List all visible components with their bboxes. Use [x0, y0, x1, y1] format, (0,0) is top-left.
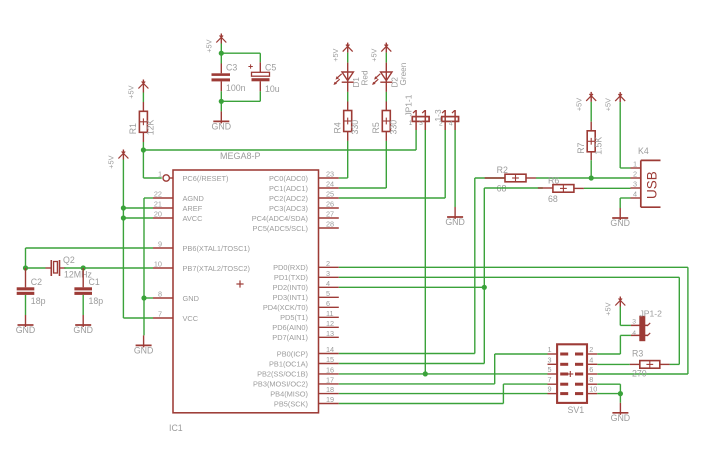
svg-text:PD4(XCK/T0): PD4(XCK/T0)	[263, 303, 308, 312]
svg-text:IC1: IC1	[169, 423, 183, 433]
svg-text:JP1-2: JP1-2	[640, 309, 663, 319]
svg-text:21: 21	[154, 200, 162, 209]
svg-text:PC6(/RESET): PC6(/RESET)	[183, 174, 229, 183]
svg-text:3: 3	[419, 120, 423, 127]
svg-text:12K: 12K	[146, 120, 156, 136]
svg-text:R5: R5	[371, 122, 381, 133]
svg-text:SV1: SV1	[568, 405, 585, 415]
svg-text:4: 4	[326, 279, 330, 288]
svg-text:10u: 10u	[265, 84, 280, 94]
svg-text:PD6(AIN0): PD6(AIN0)	[272, 323, 308, 332]
svg-text:18p: 18p	[89, 296, 104, 306]
svg-text:5: 5	[326, 289, 330, 298]
svg-text:USB: USB	[645, 171, 660, 199]
svg-text:27: 27	[326, 210, 334, 219]
svg-text:2: 2	[326, 259, 330, 268]
svg-text:C5: C5	[265, 62, 276, 72]
svg-text:3: 3	[633, 179, 637, 188]
svg-text:7: 7	[158, 310, 162, 319]
svg-text:4: 4	[633, 189, 637, 198]
svg-text:PC2(ADC2): PC2(ADC2)	[269, 194, 308, 203]
svg-text:R7: R7	[576, 142, 586, 153]
svg-text:PD7(AIN1): PD7(AIN1)	[272, 333, 308, 342]
svg-text:PB6(XTAL1/TOSC1): PB6(XTAL1/TOSC1)	[183, 244, 251, 253]
svg-text:PC4(ADC4/SDA): PC4(ADC4/SDA)	[252, 214, 308, 223]
svg-text:+5V: +5V	[604, 302, 613, 315]
svg-text:3: 3	[547, 355, 551, 364]
svg-text:+5V: +5V	[370, 48, 379, 61]
svg-text:PD0(RXD): PD0(RXD)	[273, 263, 308, 272]
svg-text:7: 7	[547, 375, 551, 384]
svg-text:1: 1	[158, 170, 162, 179]
svg-text:PB2(SS/OC1B): PB2(SS/OC1B)	[257, 370, 308, 379]
svg-text:26: 26	[326, 200, 334, 209]
svg-text:17: 17	[326, 376, 334, 385]
svg-text:AVCC: AVCC	[183, 214, 204, 223]
svg-text:11: 11	[326, 309, 334, 318]
svg-text:9: 9	[547, 385, 551, 394]
svg-text:GND: GND	[134, 345, 154, 355]
svg-text:68: 68	[548, 194, 558, 204]
svg-text:10: 10	[589, 385, 597, 394]
svg-text:MEGA8-P: MEGA8-P	[220, 151, 261, 161]
svg-text:22: 22	[154, 190, 162, 199]
svg-text:PC1(ADC1): PC1(ADC1)	[269, 184, 308, 193]
svg-text:1: 1	[409, 120, 413, 127]
svg-text:6: 6	[589, 365, 593, 374]
svg-text:Green: Green	[399, 62, 408, 85]
svg-text:Q2: Q2	[63, 255, 75, 265]
svg-text:R1: R1	[128, 123, 138, 134]
svg-text:AGND: AGND	[183, 194, 204, 203]
svg-text:PD5(T1): PD5(T1)	[280, 313, 308, 322]
svg-text:13: 13	[326, 329, 334, 338]
svg-text:5: 5	[547, 365, 551, 374]
svg-text:1: 1	[547, 345, 551, 354]
svg-text:+5V: +5V	[205, 39, 214, 52]
svg-text:PB3(MOSI/OC2): PB3(MOSI/OC2)	[253, 380, 308, 389]
svg-text:18: 18	[326, 385, 334, 394]
svg-text:24: 24	[326, 180, 334, 189]
svg-text:R2: R2	[497, 165, 508, 175]
svg-text:2: 2	[633, 169, 637, 178]
svg-text:12: 12	[326, 319, 334, 328]
svg-text:JP1-1: JP1-1	[404, 94, 414, 116]
svg-text:GND: GND	[445, 217, 465, 227]
svg-text:10: 10	[154, 260, 162, 269]
svg-text:8: 8	[589, 375, 593, 384]
svg-text:K4: K4	[638, 146, 649, 156]
svg-text:PC3(ADC3): PC3(ADC3)	[269, 204, 308, 213]
svg-text:PC0(ADC0): PC0(ADC0)	[269, 174, 308, 183]
svg-text:GND: GND	[73, 325, 93, 335]
svg-text:AREF: AREF	[183, 204, 203, 213]
svg-text:330: 330	[350, 120, 360, 135]
svg-text:GND: GND	[212, 121, 232, 131]
svg-text:PD2(INT0): PD2(INT0)	[273, 283, 308, 292]
svg-text:270: 270	[632, 369, 647, 379]
svg-text:PB5(SCK): PB5(SCK)	[274, 399, 308, 408]
svg-text:R6: R6	[548, 176, 559, 186]
svg-text:PB1(OC1A): PB1(OC1A)	[269, 359, 308, 368]
svg-text:R3: R3	[632, 349, 643, 359]
svg-text:+5V: +5V	[127, 85, 136, 98]
svg-text:4: 4	[449, 121, 453, 128]
svg-text:18p: 18p	[31, 296, 46, 306]
svg-text:16: 16	[326, 366, 334, 375]
svg-text:19: 19	[326, 395, 334, 404]
svg-text:28: 28	[326, 220, 334, 229]
svg-text:C1: C1	[89, 277, 100, 287]
svg-text:C2: C2	[31, 277, 42, 287]
svg-text:1: 1	[633, 159, 637, 168]
svg-text:3: 3	[632, 318, 636, 325]
svg-text:4: 4	[632, 330, 636, 337]
svg-text:R4: R4	[332, 122, 342, 133]
svg-text:8: 8	[158, 290, 162, 299]
svg-text:15: 15	[326, 355, 334, 364]
svg-text:14: 14	[326, 345, 334, 354]
svg-text:23: 23	[326, 170, 334, 179]
svg-text:+5V: +5V	[603, 98, 612, 111]
svg-text:Red: Red	[360, 70, 369, 85]
svg-text:PC5(ADC5/SCL): PC5(ADC5/SCL)	[253, 224, 308, 233]
svg-text:6: 6	[326, 299, 330, 308]
svg-text:2: 2	[589, 345, 593, 354]
svg-text:330: 330	[389, 120, 399, 135]
svg-text:100n: 100n	[226, 83, 246, 93]
svg-text:25: 25	[326, 190, 334, 199]
svg-text:GND: GND	[16, 325, 36, 335]
svg-text:+5V: +5V	[331, 48, 340, 61]
svg-text:1.5K: 1.5K	[594, 137, 604, 155]
svg-text:VCC: VCC	[183, 314, 199, 323]
svg-text:C3: C3	[226, 62, 237, 72]
svg-text:+5V: +5V	[107, 155, 116, 168]
svg-text:20: 20	[154, 210, 162, 219]
svg-text:PD1(TXD): PD1(TXD)	[274, 273, 308, 282]
svg-text:GND: GND	[611, 413, 631, 423]
svg-text:PD3(INT1): PD3(INT1)	[273, 293, 308, 302]
svg-text:GND: GND	[183, 294, 199, 303]
svg-text:9: 9	[158, 240, 162, 249]
svg-text:+5V: +5V	[574, 98, 583, 111]
svg-text:PB4(MISO): PB4(MISO)	[270, 389, 308, 398]
svg-text:2: 2	[439, 121, 443, 128]
svg-text:4: 4	[589, 355, 593, 364]
svg-text:PB0(ICP): PB0(ICP)	[277, 349, 308, 358]
svg-text:PB7(XTAL2/TOSC2): PB7(XTAL2/TOSC2)	[183, 264, 251, 273]
svg-text:3: 3	[326, 269, 330, 278]
svg-text:GND: GND	[610, 218, 630, 228]
